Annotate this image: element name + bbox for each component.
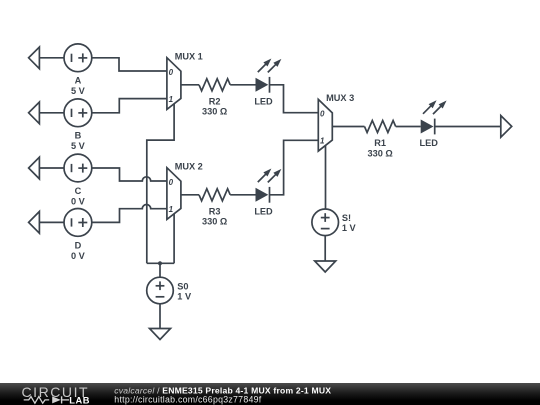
svg-text:5 V: 5 V bbox=[71, 86, 86, 96]
footer bar bbox=[0, 383, 540, 405]
wire MUX2 select down bbox=[173, 214, 175, 263]
wire LED D3 to MUX3 pin 1 bbox=[270, 140, 319, 195]
svg-text:0: 0 bbox=[320, 110, 325, 119]
ground (S!) bbox=[315, 261, 336, 272]
wire MUX3 select down bbox=[325, 146, 327, 210]
input port D bbox=[29, 212, 40, 234]
voltage source D bbox=[64, 209, 92, 237]
LED D3 bbox=[256, 166, 284, 202]
wire R1 to LED D1 bbox=[396, 126, 421, 128]
svg-text:1 V: 1 V bbox=[342, 223, 357, 233]
wire LED D2 to MUX3 pin 0 bbox=[270, 85, 319, 113]
svg-text:LED: LED bbox=[254, 96, 273, 106]
input port B bbox=[29, 102, 40, 124]
resistor R1 bbox=[365, 121, 396, 133]
svg-text:S0: S0 bbox=[177, 281, 188, 291]
svg-text:http://circuitlab.com/c66pq3z7: http://circuitlab.com/c66pq3z77849f bbox=[114, 394, 261, 404]
ground (S0) bbox=[150, 329, 171, 340]
wire source A to MUX1 pin 0 bbox=[92, 58, 167, 71]
svg-text:R3: R3 bbox=[209, 206, 221, 216]
svg-text:5 V: 5 V bbox=[71, 141, 86, 151]
svg-text:C: C bbox=[75, 186, 82, 196]
wire MUX3 out to R1 bbox=[332, 126, 364, 128]
svg-text:A: A bbox=[75, 76, 82, 86]
resistor R3 bbox=[199, 189, 230, 201]
wire port A to source A bbox=[39, 57, 64, 59]
LED D1 bbox=[421, 98, 449, 134]
svg-text:0: 0 bbox=[169, 68, 174, 77]
wire source D to MUX2 pin 1 (hops select line) bbox=[92, 205, 167, 223]
LED D2 bbox=[256, 56, 284, 92]
svg-text:MUX 1: MUX 1 bbox=[175, 51, 203, 61]
wire MUX1 out to R2 bbox=[181, 84, 199, 86]
wire R2 to LED D2 bbox=[230, 84, 255, 86]
svg-text:0 V: 0 V bbox=[71, 251, 86, 261]
wire MUX1 select down-left bbox=[147, 104, 174, 263]
junction S0 node bbox=[158, 261, 162, 265]
wire S! to ground bbox=[324, 236, 326, 261]
wire port B to source B bbox=[39, 112, 64, 114]
voltage source B bbox=[64, 99, 92, 127]
svg-text:S!: S! bbox=[342, 213, 351, 223]
input port A bbox=[29, 47, 40, 69]
svg-text:0 V: 0 V bbox=[71, 196, 86, 206]
svg-text:330 Ω: 330 Ω bbox=[367, 148, 392, 158]
CircuitLab logo wordmark bbox=[22, 384, 90, 405]
input port C bbox=[29, 157, 40, 179]
mux U2 body bbox=[167, 168, 181, 220]
svg-text:1 V: 1 V bbox=[177, 292, 192, 302]
wire port C to source C bbox=[39, 167, 64, 169]
svg-text:R1: R1 bbox=[374, 138, 386, 148]
svg-text:1: 1 bbox=[320, 137, 325, 146]
svg-text:R2: R2 bbox=[209, 96, 221, 106]
wire MUX2 out to R3 bbox=[181, 194, 199, 196]
svg-text:MUX 2: MUX 2 bbox=[175, 161, 203, 171]
output port bbox=[501, 116, 512, 138]
svg-text:LAB: LAB bbox=[69, 396, 90, 405]
wire source B to MUX1 pin 1 bbox=[92, 99, 167, 113]
wire select bus S0 bbox=[147, 262, 174, 264]
svg-text:330 Ω: 330 Ω bbox=[202, 107, 227, 117]
svg-text:0: 0 bbox=[169, 178, 174, 187]
svg-text:1: 1 bbox=[169, 205, 174, 214]
voltage source A bbox=[64, 44, 92, 72]
voltage source S0 bbox=[147, 277, 174, 304]
svg-text:MUX 3: MUX 3 bbox=[326, 93, 354, 103]
svg-text:330 Ω: 330 Ω bbox=[202, 217, 227, 227]
wire junction to source S0 bbox=[159, 263, 161, 277]
wire LED D1 to output port bbox=[435, 126, 501, 128]
svg-text:D: D bbox=[75, 240, 82, 250]
mux U1 body bbox=[167, 58, 181, 110]
voltage source C bbox=[64, 154, 92, 182]
wire R3 to LED D3 bbox=[230, 194, 255, 196]
voltage source S! bbox=[312, 209, 339, 236]
mux U3 body bbox=[318, 99, 332, 151]
resistor R2 bbox=[199, 79, 230, 91]
wire S0 to ground bbox=[159, 304, 161, 329]
svg-text:B: B bbox=[75, 131, 82, 141]
wire port D to source D bbox=[39, 221, 64, 223]
svg-text:LED: LED bbox=[420, 138, 439, 148]
wire source C to MUX2 pin 0 (hops select line) bbox=[92, 168, 167, 181]
svg-text:1: 1 bbox=[169, 95, 174, 104]
svg-text:LED: LED bbox=[254, 206, 273, 216]
